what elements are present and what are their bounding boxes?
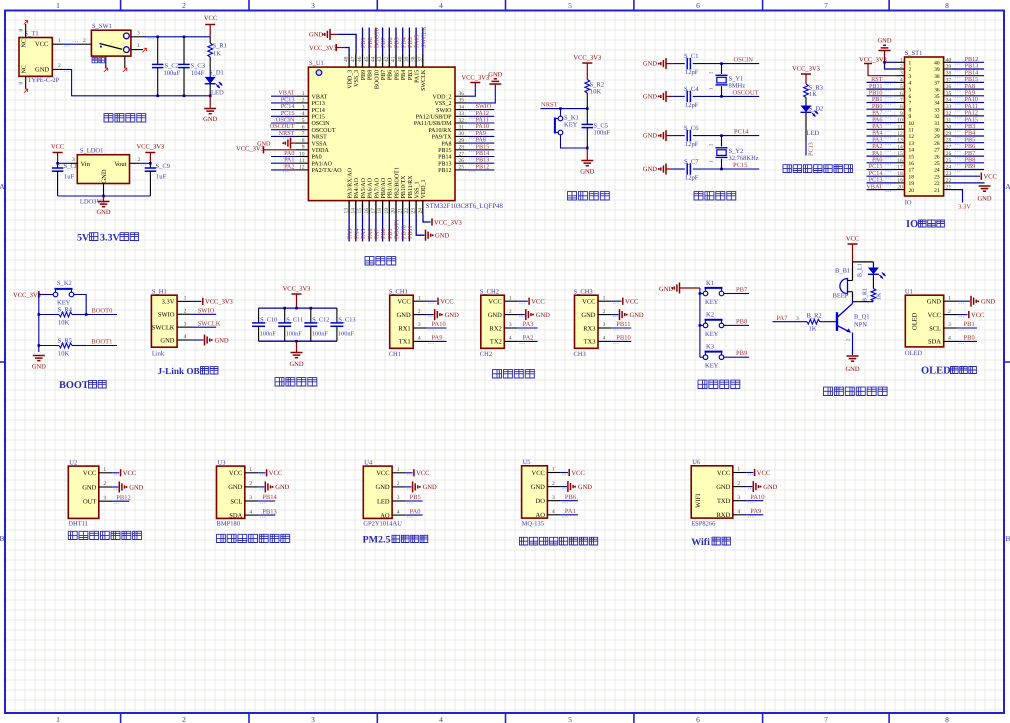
wire and vertical net label PC13	[805, 113, 807, 141]
net label PB9	[724, 356, 734, 358]
svg-text:S_U1: S_U1	[309, 60, 324, 67]
svg-text:29: 29	[946, 131, 952, 137]
svg-text:B: B	[0, 534, 5, 543]
svg-text:GND: GND	[32, 364, 46, 371]
svg-text:S_C2: S_C2	[165, 63, 179, 70]
svg-text:S_C8: S_C8	[64, 163, 78, 170]
svg-text:8: 8	[909, 107, 912, 113]
svg-text:GND: GND	[275, 484, 289, 491]
left pins of S_ST1	[897, 61, 905, 63]
svg-text:7: 7	[909, 101, 912, 107]
power port VCC at OLED pin2	[957, 314, 968, 316]
svg-text:9: 9	[900, 111, 903, 117]
svg-text:PB15: PB15	[438, 148, 451, 154]
capacitor S_C5 100nF	[586, 109, 588, 125]
svg-text:NC: NC	[22, 39, 28, 47]
svg-text:3: 3	[397, 495, 400, 501]
svg-text:2: 2	[103, 481, 106, 487]
svg-text:VDD_1: VDD_1	[421, 180, 427, 199]
resistor S_R5 10K	[39, 345, 59, 347]
power port VCC at S_CH3	[611, 300, 621, 302]
module U3 BMP180	[217, 466, 245, 518]
ground GND below LED	[209, 96, 211, 109]
svg-text:OLED: OLED	[921, 366, 951, 377]
svg-text:VCC: VCC	[928, 312, 941, 319]
svg-text:GND: GND	[578, 484, 592, 491]
svg-text:12pF: 12pF	[685, 175, 699, 182]
svg-text:2: 2	[182, 715, 186, 723]
wire T1-VCC to SW1	[63, 43, 80, 45]
svg-text:PA9: PA9	[750, 508, 761, 515]
svg-text:PB7: PB7	[381, 70, 387, 80]
svg-text:NPN: NPN	[854, 321, 867, 328]
svg-text:1uF: 1uF	[156, 174, 167, 181]
svg-text:VCC_3V3: VCC_3V3	[13, 292, 41, 299]
svg-text:2: 2	[397, 481, 400, 487]
svg-text:GND: GND	[309, 32, 323, 39]
svg-text:2: 2	[900, 64, 903, 70]
svg-text:34: 34	[934, 101, 940, 107]
svg-text:5: 5	[900, 84, 903, 90]
wire K1 to cap node	[561, 135, 588, 148]
svg-text:K1: K1	[706, 280, 714, 287]
module U2 DHT11	[68, 466, 99, 518]
svg-text:3: 3	[418, 322, 421, 328]
svg-text:RX2: RX2	[490, 325, 502, 332]
svg-text:VCC_3V3: VCC_3V3	[434, 219, 462, 226]
svg-text:16: 16	[909, 161, 915, 167]
svg-text:TYPE-C-2P: TYPE-C-2P	[28, 77, 60, 84]
svg-text:GND: GND	[643, 133, 657, 140]
svg-text:GND: GND	[35, 67, 49, 74]
svg-text:7: 7	[900, 98, 903, 104]
svg-text:LED: LED	[807, 130, 820, 137]
svg-text:15: 15	[909, 154, 915, 160]
svg-text:2: 2	[184, 308, 187, 314]
svg-text:PA2: PA2	[284, 163, 294, 170]
svg-text:SCL: SCL	[929, 325, 941, 332]
capacitor S_C9 1uF	[149, 162, 152, 165]
svg-text:8: 8	[945, 715, 949, 723]
svg-text:GND: GND	[763, 484, 777, 491]
ground GND below LDO	[103, 196, 105, 202]
svg-text:U3: U3	[218, 460, 226, 467]
svg-text:26: 26	[946, 151, 952, 157]
svg-text:MQ-135: MQ-135	[522, 520, 544, 527]
svg-text:PA1/AO: PA1/AO	[312, 161, 333, 167]
net label PB8	[724, 324, 734, 326]
svg-text:IO: IO	[906, 219, 918, 230]
svg-text:PB13: PB13	[262, 508, 276, 515]
svg-text:8MHz: 8MHz	[729, 83, 746, 90]
svg-text:3: 3	[311, 715, 315, 723]
svg-text:3: 3	[737, 495, 740, 501]
regulator S_LDO1 LDO3V3	[77, 155, 129, 184]
caption crystal circuit	[694, 192, 703, 200]
svg-text:PA9: PA9	[432, 335, 443, 342]
svg-text:1: 1	[56, 1, 60, 10]
svg-text:PA9/TX: PA9/TX	[432, 135, 452, 141]
svg-text:VCC: VCC	[488, 299, 501, 306]
svg-text:VCC: VCC	[416, 470, 429, 477]
svg-text:PB12: PB12	[116, 494, 130, 501]
svg-text:4: 4	[948, 336, 951, 342]
ground GND at U6	[746, 486, 752, 488]
svg-text:U6: U6	[692, 459, 701, 466]
svg-text:VSS_1: VSS_1	[415, 181, 421, 198]
net PB11 at S_CH3	[611, 327, 631, 329]
svg-text:100nF: 100nF	[286, 331, 303, 338]
svg-text:S_CH2: S_CH2	[480, 288, 499, 295]
svg-text:PB14: PB14	[262, 494, 277, 501]
svg-text:PA5/AO: PA5/AO	[361, 177, 367, 198]
power port VCC at U5	[561, 472, 568, 474]
svg-text:4: 4	[509, 336, 512, 342]
svg-text:AO: AO	[536, 512, 546, 519]
wires ST1 pins 1-2 to GND	[885, 61, 897, 63]
svg-text:0: 0	[19, 82, 25, 85]
svg-text:2: 2	[603, 309, 606, 315]
wire LDO Vout to VCC_3V3	[140, 162, 151, 164]
svg-text:S_D1: S_D1	[209, 70, 224, 77]
svg-text:S_R5: S_R5	[58, 338, 72, 345]
caption mixed gas module	[520, 537, 528, 545]
right net wires of S_ST1	[952, 61, 985, 63]
svg-text:40: 40	[934, 61, 940, 67]
svg-text:B_R2: B_R2	[807, 312, 822, 319]
svg-text:37: 37	[934, 81, 940, 87]
svg-text:PB0: PB0	[964, 335, 975, 342]
svg-text:S_SW1: S_SW1	[92, 23, 112, 30]
left net wires of S_ST1	[867, 81, 897, 83]
svg-text:S_C10: S_C10	[260, 317, 277, 324]
resistor S_R3 1K	[804, 84, 809, 98]
ground GND at H1 pin4	[191, 339, 204, 341]
svg-text:PM2.5: PM2.5	[363, 535, 391, 546]
ground GND at VSS_2 pin 35	[467, 84, 495, 103]
svg-text:VCC: VCC	[123, 470, 136, 477]
svg-text:KEY: KEY	[57, 300, 71, 307]
svg-text:3.3V: 3.3V	[100, 233, 121, 244]
emitter to ground GND	[852, 333, 854, 356]
capacitor S_C7 12pF	[672, 168, 685, 170]
svg-text:VCC: VCC	[846, 236, 859, 243]
svg-text:GND: GND	[981, 299, 995, 306]
svg-text:12: 12	[897, 131, 903, 137]
svg-text:34: 34	[946, 98, 952, 104]
svg-text:SWIO: SWIO	[436, 108, 452, 114]
svg-text:GND: GND	[643, 166, 657, 173]
capacitor S_C3 104F	[183, 37, 185, 65]
net SWIO at H1 pin2	[191, 313, 217, 315]
svg-text:KEY: KEY	[705, 363, 719, 370]
svg-text:GND: GND	[435, 233, 449, 240]
capacitor S_C4 12pF	[672, 95, 685, 97]
svg-text:B_B1: B_B1	[835, 267, 850, 274]
svg-text:100nF: 100nF	[260, 331, 277, 338]
svg-text:12pF: 12pF	[685, 141, 699, 148]
svg-text:12pF: 12pF	[685, 69, 699, 76]
power port VCC_3V3 at VDD_2 pin 36	[467, 83, 475, 97]
svg-text:PB12: PB12	[438, 168, 451, 174]
svg-text:BOOT1: BOOT1	[91, 338, 112, 345]
svg-text:PB9: PB9	[361, 70, 367, 80]
svg-text:SCL: SCL	[230, 498, 242, 505]
svg-text:S_C1: S_C1	[684, 53, 698, 60]
svg-text:PB2/BOOT1: PB2/BOOT1	[394, 167, 400, 198]
junction bottom rail at LED	[209, 95, 212, 98]
capacitor S_C11 100nF	[284, 308, 286, 323]
svg-text:PB14: PB14	[438, 155, 451, 161]
svg-text:VCC: VCC	[717, 470, 730, 477]
svg-text:3: 3	[103, 495, 106, 501]
svg-text:LED: LED	[377, 498, 390, 505]
svg-text:OSCIN: OSCIN	[312, 121, 331, 127]
svg-text:PC15: PC15	[733, 162, 747, 169]
svg-text:100uF: 100uF	[164, 70, 181, 77]
pins of S_CH1	[413, 300, 426, 302]
svg-text:S_C13: S_C13	[338, 317, 355, 324]
svg-text:11: 11	[909, 128, 915, 134]
svg-text:6: 6	[696, 715, 700, 723]
svg-text:8: 8	[900, 104, 903, 110]
header S_ST1 40-pin IO	[905, 57, 944, 196]
svg-text:10K: 10K	[58, 351, 70, 358]
svg-text:GND: GND	[228, 484, 242, 491]
power port VCC at S_CH1	[427, 300, 437, 302]
svg-text:Vin: Vin	[81, 161, 91, 168]
push button K1 KEY	[700, 293, 703, 295]
power port VCC at U3	[258, 472, 265, 474]
power port VCC at U4	[405, 472, 412, 474]
svg-text:Wifi: Wifi	[691, 537, 710, 548]
header S_CH3	[575, 295, 599, 348]
svg-text:6: 6	[696, 1, 700, 10]
svg-text:VCC: VCC	[532, 470, 545, 477]
svg-text:GND: GND	[536, 312, 550, 319]
svg-text:2: 2	[909, 67, 912, 73]
svg-text:5: 5	[909, 87, 912, 93]
svg-text:ESP8266: ESP8266	[691, 520, 716, 527]
svg-text:VCC: VCC	[376, 470, 389, 477]
svg-text:GND: GND	[643, 61, 657, 68]
svg-text:DO: DO	[536, 498, 546, 505]
svg-text:23: 23	[946, 171, 952, 177]
svg-text:30: 30	[934, 128, 940, 134]
pin 3 of S_SW1	[131, 36, 146, 38]
top pin net wires of S_U1	[362, 28, 364, 54]
svg-text:GND: GND	[289, 361, 303, 368]
svg-text:2: 2	[418, 309, 421, 315]
svg-text:1: 1	[58, 38, 61, 44]
svg-text:39: 39	[934, 67, 940, 73]
svg-text:S_Y2: S_Y2	[729, 148, 744, 155]
svg-text:GND: GND	[488, 312, 502, 319]
svg-text:VCC: VCC	[51, 144, 64, 151]
svg-text:22: 22	[946, 178, 952, 184]
svg-text:5: 5	[568, 715, 572, 723]
svg-text:4: 4	[737, 509, 740, 515]
junction top rail C3	[183, 36, 186, 39]
net label PA7 to base	[773, 321, 807, 323]
svg-text:GND: GND	[659, 286, 673, 293]
crystal S_Y2 32.768KHz	[721, 136, 723, 147]
svg-text:17: 17	[897, 165, 903, 171]
power port VCC_3V3 at H1 pin1	[191, 300, 202, 302]
svg-text:PB12: PB12	[476, 163, 490, 170]
net PB10 at S_CH3	[611, 340, 631, 342]
svg-text:16: 16	[897, 158, 903, 164]
svg-text:PB11/RX: PB11/RX	[408, 175, 414, 199]
wire VCC_3V3 to K2	[39, 294, 53, 296]
display header U1 OLED	[905, 295, 943, 347]
svg-text:2: 2	[83, 38, 86, 44]
svg-text:GND: GND	[927, 299, 941, 306]
svg-text:3: 3	[603, 322, 606, 328]
pin 0 bottom of S_T1	[25, 76, 27, 89]
svg-text:CH3: CH3	[574, 351, 586, 358]
svg-text:4: 4	[249, 509, 252, 515]
pin 1 of S_SW1 with no-ERC marker	[131, 49, 143, 51]
svg-text:3: 3	[796, 316, 799, 322]
svg-text:NC: NC	[22, 65, 28, 73]
svg-text:VCC: VCC	[971, 312, 984, 319]
net PA10 at U6	[746, 500, 763, 502]
caption filter circuit	[275, 378, 284, 386]
svg-text:S_C5: S_C5	[594, 123, 608, 130]
svg-text:S_C7: S_C7	[684, 159, 699, 166]
pins of U1	[944, 300, 957, 302]
svg-text:GND: GND	[96, 209, 110, 216]
svg-text:GND: GND	[977, 196, 991, 203]
net PB12 at U2	[112, 500, 129, 502]
capacitor S_C12 100nF	[310, 308, 312, 323]
svg-text:BOOT: BOOT	[59, 380, 89, 391]
svg-text:4: 4	[418, 336, 421, 342]
svg-text:13: 13	[909, 141, 915, 147]
svg-text:PB6: PB6	[388, 70, 394, 80]
svg-text:GND: GND	[397, 312, 411, 319]
header S_CH2	[481, 295, 505, 348]
svg-text:VSSA: VSSA	[312, 141, 328, 147]
svg-text:25: 25	[946, 158, 952, 164]
svg-text:9: 9	[909, 114, 912, 120]
svg-text:U1: U1	[905, 288, 913, 295]
wire T1-GND to bottom rail	[63, 69, 211, 95]
svg-text:B_R1: B_R1	[863, 288, 869, 302]
module U6 ESP8266	[691, 466, 733, 518]
svg-text:1: 1	[603, 295, 606, 301]
capacitor S_C8 1uF	[57, 163, 59, 168]
junction VCC-C8	[56, 162, 59, 165]
net PB1 at OLED pin3	[957, 327, 977, 329]
svg-text:S_C3: S_C3	[191, 63, 205, 70]
svg-text:3: 3	[900, 71, 903, 77]
svg-text:PB9: PB9	[736, 350, 747, 357]
svg-text:NRST: NRST	[312, 135, 328, 141]
svg-text:S_H1: S_H1	[152, 288, 167, 295]
svg-text:104F: 104F	[191, 70, 205, 77]
svg-text:40: 40	[946, 57, 952, 63]
svg-text:GND: GND	[716, 484, 730, 491]
svg-text:24: 24	[934, 168, 940, 174]
pin 2 GND of S_T1	[52, 68, 62, 70]
resistor B_R2 1K	[807, 319, 820, 324]
svg-text:12pF: 12pF	[685, 102, 699, 109]
svg-text:S_C12: S_C12	[312, 317, 329, 324]
svg-text:5V: 5V	[77, 233, 90, 244]
net PA10 at S_CH1	[427, 327, 447, 329]
wire VCC to LDO Vin	[58, 162, 68, 164]
pin 3 of LDO	[67, 162, 77, 164]
svg-text:VBAT: VBAT	[312, 94, 328, 100]
ground GND at U3	[258, 486, 264, 488]
ground GND at U2	[112, 486, 118, 488]
ground GND boot	[33, 355, 45, 357]
caption serial port circuit	[493, 370, 502, 378]
svg-text:PB10/TX: PB10/TX	[401, 175, 407, 199]
svg-text:GND: GND	[643, 93, 657, 100]
header S_H1 J-Link	[151, 295, 177, 347]
net PA9 at S_CH1	[427, 340, 447, 342]
svg-text:S_CH3: S_CH3	[574, 288, 593, 295]
svg-text:2: 2	[182, 1, 186, 10]
svg-text:S_K1: S_K1	[564, 115, 579, 122]
svg-text:21: 21	[934, 188, 940, 194]
svg-text:OSCOUT: OSCOUT	[312, 128, 336, 134]
svg-text:PB3: PB3	[408, 70, 414, 80]
svg-text:VCC_3V3: VCC_3V3	[309, 45, 337, 52]
svg-text:VCC_3V3: VCC_3V3	[792, 66, 820, 73]
svg-text:1: 1	[103, 467, 106, 473]
svg-text:2: 2	[249, 481, 252, 487]
svg-text:1K: 1K	[213, 51, 221, 58]
svg-text:STM32F103C8T6_LQFP48: STM32F103C8T6_LQFP48	[426, 203, 504, 210]
svg-text:GND: GND	[160, 337, 174, 344]
svg-text:PA15: PA15	[415, 70, 421, 83]
bottom pin net wires of S_U1	[348, 214, 350, 241]
svg-text:CH1: CH1	[389, 351, 401, 358]
svg-text:WIFI: WIFI	[695, 494, 702, 508]
power port VCC at S_CH2	[518, 300, 528, 302]
svg-text:KEY: KEY	[564, 122, 578, 129]
svg-text:1: 1	[137, 43, 140, 49]
svg-text:6: 6	[909, 94, 912, 100]
capacitor S_C6 12pF	[672, 135, 685, 137]
bottom pins of S_SW1 with no-ERC markers	[105, 56, 107, 68]
svg-text:GND: GND	[101, 169, 108, 183]
wire R2 to NRST node	[586, 93, 588, 109]
svg-text:U5: U5	[523, 459, 531, 466]
svg-text:SDA: SDA	[928, 339, 941, 346]
svg-text:0: 0	[19, 29, 25, 32]
svg-text:GND: GND	[630, 312, 644, 319]
svg-text:32: 32	[946, 111, 952, 117]
switch S_SW1	[91, 30, 130, 56]
crystal S_Y1 8MHz	[721, 64, 723, 74]
pins of U6	[733, 472, 746, 474]
svg-text:2: 2	[509, 309, 512, 315]
svg-text:4: 4	[184, 334, 187, 340]
svg-text:OSCOUT: OSCOUT	[733, 89, 759, 96]
svg-text:2: 2	[552, 481, 555, 487]
svg-text:3.3V: 3.3V	[958, 204, 971, 211]
svg-text:PA8: PA8	[441, 141, 451, 147]
svg-text:35: 35	[946, 91, 952, 97]
svg-text:VCC: VCC	[571, 470, 584, 477]
pins of S_H1	[177, 300, 190, 302]
svg-text:3: 3	[311, 1, 315, 10]
